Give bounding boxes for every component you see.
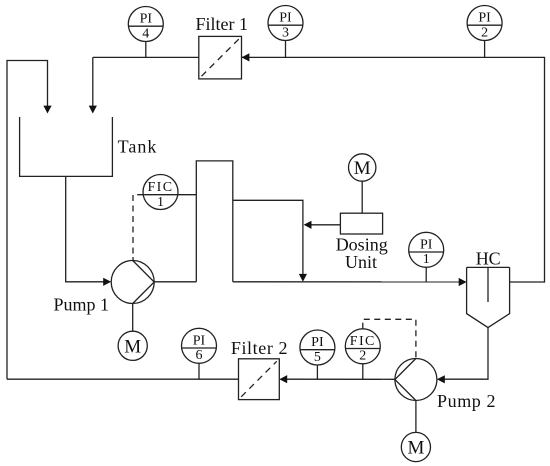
wire: top pipe from Filter 1 to right riser xyxy=(242,57,545,282)
wire: Filter 2 to bottom-left corner xyxy=(7,378,239,380)
gauge PI1 stem xyxy=(425,267,427,282)
svg-text:PI: PI xyxy=(279,11,292,26)
motor M (dosing unit) xyxy=(349,154,376,181)
dosing unit box xyxy=(340,213,382,234)
pump P1 xyxy=(111,261,154,304)
pump P2 xyxy=(395,359,437,401)
svg-text:Pump 2: Pump 2 xyxy=(437,391,496,411)
svg-text:PI: PI xyxy=(140,12,153,27)
svg-text:PI: PI xyxy=(193,333,206,348)
gauge PI2 xyxy=(467,6,502,41)
wire: pump P1 outlet xyxy=(154,281,196,283)
svg-text:1: 1 xyxy=(157,195,164,210)
wire: pump P2 shaft to motor xyxy=(415,401,417,433)
svg-text:M: M xyxy=(407,438,424,459)
svg-text:1: 1 xyxy=(423,252,430,267)
arrow into drop line (pointing left) xyxy=(304,221,312,229)
arrow down into main line xyxy=(299,274,307,282)
arrow into Pump 1 xyxy=(103,278,111,286)
gauge PI3 stem xyxy=(285,41,287,58)
svg-text:FIC: FIC xyxy=(350,334,376,349)
arrow into tank (right) xyxy=(89,106,97,114)
gauge PI4 stem xyxy=(145,42,147,58)
wire: branch from riser to dosing drop xyxy=(233,200,303,274)
dashed control line FIC2 to pump P2 xyxy=(363,319,416,358)
svg-text:HC: HC xyxy=(476,248,501,268)
controller FIC1 xyxy=(143,175,178,210)
wire: main middle line to HC xyxy=(233,281,459,283)
motor M (pump 2) xyxy=(401,432,430,461)
svg-text:PI: PI xyxy=(420,237,433,252)
filter F2 box xyxy=(239,359,280,400)
arrow into Filter 2 right side (top line, pointing left) xyxy=(242,53,250,61)
wire: pump P1 shaft to motor xyxy=(132,304,134,332)
wire: motor shaft to dosing unit xyxy=(361,181,363,213)
svg-text:M: M xyxy=(354,158,371,179)
tank (open-top vessel) xyxy=(20,117,113,176)
arrow into tank (left) xyxy=(43,106,51,114)
filter F2 dashed diagonal xyxy=(241,361,277,397)
svg-text:Filter 2: Filter 2 xyxy=(231,338,288,358)
svg-text:3: 3 xyxy=(282,25,289,40)
wire: top inlet branch down to tank (right drop) xyxy=(92,57,94,106)
gauge PI4 xyxy=(128,7,163,42)
filter F1 box xyxy=(199,36,242,79)
gauge PI2 stem xyxy=(484,41,486,58)
svg-text:2: 2 xyxy=(481,25,488,40)
arrow into HC xyxy=(459,278,467,286)
svg-text:Pump 1: Pump 1 xyxy=(54,295,110,315)
wire: left return pipe (bottom-left up to tank inlet) xyxy=(7,61,48,380)
controller FIC2 stem xyxy=(362,364,364,380)
svg-text:Filter 1: Filter 1 xyxy=(196,14,249,34)
svg-text:FIC: FIC xyxy=(148,180,174,195)
svg-text:2: 2 xyxy=(359,349,366,364)
wire: HC bottom outlet to Pump 2 xyxy=(444,328,488,380)
gauge PI5 xyxy=(300,330,335,365)
filter F1 dashed diagonal xyxy=(202,39,239,76)
svg-text:PI: PI xyxy=(311,335,324,350)
label Dosing Unit xyxy=(336,235,388,273)
wire: tank outlet to Pump 1 xyxy=(66,176,104,281)
arrow into Pump 2 (pointing left) xyxy=(437,375,445,383)
svg-text:5: 5 xyxy=(314,350,321,365)
svg-text:6: 6 xyxy=(196,348,203,363)
wire: riser bridge (inverted U) xyxy=(196,161,233,282)
gauge PI1 xyxy=(409,232,444,267)
arrow into Filter 2 (pointing left) xyxy=(279,375,287,383)
svg-text:Tank: Tank xyxy=(118,137,158,157)
gauge PI6 stem xyxy=(198,363,200,379)
wire: dosing unit feed line xyxy=(311,224,340,226)
gauge PI3 xyxy=(268,6,303,41)
svg-text:Unit: Unit xyxy=(345,252,377,272)
controller FIC2 xyxy=(345,329,380,364)
motor M (pump 1) xyxy=(118,331,147,360)
gauge PI5 stem xyxy=(316,365,318,379)
svg-text:PI: PI xyxy=(478,11,491,26)
wire: top pipe from tank-branch to Filter 1 xyxy=(93,56,199,58)
svg-text:M: M xyxy=(124,336,141,357)
vessel HC (hydrocyclone) xyxy=(467,267,510,327)
gauge PI6 xyxy=(182,328,217,363)
dashed control line FIC1 to pump P1 xyxy=(133,195,143,257)
controller FIC1 measuring line into riser xyxy=(143,194,196,196)
wire: pump P2 outlet to Filter 2 xyxy=(287,378,395,380)
svg-text:4: 4 xyxy=(142,26,149,41)
